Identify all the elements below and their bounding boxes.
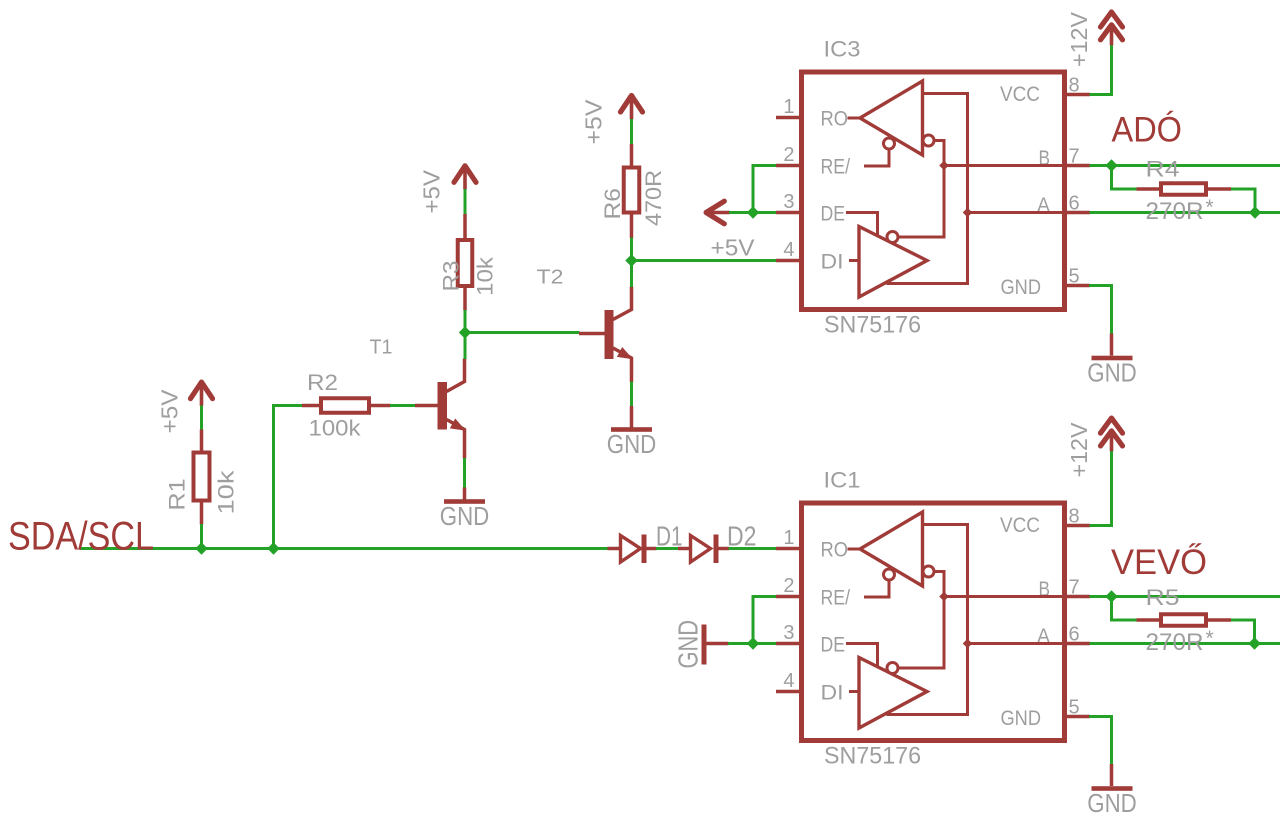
driver buffer triangle (inside IC1) bbox=[849, 658, 927, 729]
wire IC3 pin B net bbox=[1090, 164, 1280, 167]
svg-text:+5V: +5V bbox=[711, 235, 756, 261]
wire junction down to T1 collector bbox=[464, 333, 467, 360]
svg-text:VCC: VCC bbox=[1000, 82, 1040, 106]
svg-text:IC1: IC1 bbox=[824, 468, 861, 493]
svg-text:*: * bbox=[1206, 627, 1214, 650]
transistor T2 (NPN) bbox=[537, 267, 634, 383]
svg-text:1: 1 bbox=[783, 527, 794, 549]
IC IC3 body box bbox=[802, 72, 1065, 310]
wire junction to IC3 pin DE bbox=[753, 211, 778, 214]
svg-text:+5V: +5V bbox=[157, 389, 183, 434]
svg-text:5: 5 bbox=[1069, 266, 1080, 288]
resistor R1 10k bbox=[165, 430, 239, 525]
net label ADÓ bbox=[1112, 111, 1183, 150]
svg-text:ADÓ: ADÓ bbox=[1112, 111, 1183, 150]
svg-text:R4: R4 bbox=[1146, 157, 1180, 182]
node junction R3/T1/T2 bbox=[459, 326, 471, 338]
pin 7 (B) bbox=[1039, 146, 1091, 171]
wire junction up to IC1 pin RE/ bbox=[753, 597, 778, 644]
svg-text:270R: 270R bbox=[1146, 629, 1204, 656]
svg-text:VEVŐ: VEVŐ bbox=[1111, 543, 1207, 582]
receiver buffer triangle (inside IC3) bbox=[848, 81, 923, 155]
svg-text:GND: GND bbox=[1001, 275, 1042, 299]
wire ground to junction bbox=[728, 642, 753, 645]
svg-text:R6: R6 bbox=[600, 188, 625, 220]
resistor R3 10k bbox=[439, 214, 498, 311]
svg-text:+5V: +5V bbox=[419, 169, 445, 213]
svg-text:R3: R3 bbox=[439, 261, 464, 292]
wire SDA/SCL to D1 bbox=[607, 547, 608, 550]
svg-text:VCC: VCC bbox=[1000, 513, 1040, 537]
svg-text:IC3: IC3 bbox=[824, 37, 861, 62]
pin 2 (RE/) bbox=[776, 144, 850, 178]
pin 3 (DE) bbox=[776, 622, 845, 656]
net label VEVŐ bbox=[1111, 543, 1207, 582]
wire B down to R5 bbox=[1112, 597, 1138, 621]
svg-text:DI: DI bbox=[821, 249, 844, 273]
wire junction up to IC3 pin RE/ bbox=[753, 166, 778, 213]
svg-text:5: 5 bbox=[1069, 697, 1080, 719]
wire IC1 VCC to +12V bbox=[1090, 451, 1112, 526]
supply +5V arrow above R6 bbox=[581, 96, 643, 145]
wire IC3 VCC to +12V bbox=[1090, 45, 1112, 95]
svg-text:8: 8 bbox=[1069, 506, 1080, 528]
svg-text:8: 8 bbox=[1069, 75, 1080, 97]
receiver enable bubble (RE/) bbox=[864, 138, 895, 166]
wire junction to IC3 pin DI, net +5V bbox=[632, 235, 778, 261]
resistor R6 470R bbox=[600, 144, 666, 238]
node junction RE//DE (IC1) bbox=[747, 637, 759, 649]
wire SDA/SCL up to R2 bbox=[274, 406, 303, 549]
pin 2 (RE/) bbox=[776, 575, 850, 609]
diode D2 bbox=[678, 521, 757, 564]
IC value SN75176 label bbox=[824, 743, 921, 770]
svg-text:RO: RO bbox=[821, 537, 849, 561]
wire +5V to R1 bbox=[200, 406, 203, 431]
IC value SN75176 label bbox=[824, 312, 921, 339]
svg-text:R1: R1 bbox=[165, 479, 190, 511]
svg-text:6: 6 bbox=[1069, 193, 1080, 215]
node junction RE//DE (IC3) bbox=[747, 206, 759, 218]
node junction SDA/SCL at R1 bbox=[195, 542, 207, 554]
node junction A at R4 bbox=[1249, 206, 1261, 218]
resistor R4 270R* bbox=[1137, 157, 1232, 226]
svg-text:*: * bbox=[1206, 196, 1214, 219]
pin 4 (DI) bbox=[776, 239, 844, 273]
svg-text:RO: RO bbox=[821, 106, 849, 130]
pin 6 (A) bbox=[1037, 193, 1090, 218]
ground GND below IC1 pin 5 bbox=[1087, 786, 1137, 818]
receiver inverting input bubble + wire to B bbox=[898, 135, 944, 237]
node junction B at R4 bbox=[1105, 159, 1117, 171]
wire IC3 GND pin to ground bbox=[1089, 286, 1112, 356]
internal junction A bbox=[963, 208, 973, 218]
driver buffer triangle (inside IC3) bbox=[849, 227, 927, 298]
svg-text:3: 3 bbox=[783, 191, 794, 213]
driver enable wire (DE) bbox=[846, 213, 878, 236]
driver inverting output bubble bbox=[887, 663, 898, 674]
pin 1 (RO) bbox=[776, 527, 848, 561]
svg-text:7: 7 bbox=[1069, 146, 1080, 168]
svg-text:GND: GND bbox=[1087, 360, 1137, 388]
supply +12V arrow (bottom) bbox=[1066, 418, 1123, 477]
wire IC3 pin A net bbox=[1090, 211, 1280, 214]
wire junction to T2 base bbox=[465, 331, 580, 334]
driver inverting output bubble bbox=[887, 232, 898, 243]
svg-text:SN75176: SN75176 bbox=[824, 743, 921, 770]
pin 5 (GND) bbox=[1001, 697, 1091, 731]
svg-text:10k: 10k bbox=[473, 256, 498, 296]
wire +5V to R6 bbox=[630, 119, 633, 145]
node junction A at R5 bbox=[1248, 637, 1260, 649]
diode D1 bbox=[608, 521, 683, 564]
internal junction B bbox=[939, 592, 949, 602]
wire R2 to T1 base bbox=[390, 404, 416, 407]
wire T1 emitter to GND bbox=[463, 458, 466, 500]
wire R4 to A line bbox=[1231, 189, 1256, 213]
svg-text:100k: 100k bbox=[309, 416, 362, 441]
receiver buffer triangle (inside IC1) bbox=[848, 512, 923, 586]
wire IC1 GND pin to ground bbox=[1089, 717, 1112, 787]
IC name IC1 label bbox=[824, 468, 861, 493]
svg-text:+12V: +12V bbox=[1066, 422, 1092, 477]
svg-text:1: 1 bbox=[783, 96, 794, 118]
wire IC1 pin B net bbox=[1090, 595, 1280, 598]
wire B down to R4 bbox=[1112, 166, 1138, 190]
wire R6 to junction bbox=[630, 238, 633, 261]
svg-text:RE/: RE/ bbox=[821, 154, 851, 178]
wire SDA/SCL horizontal bus bbox=[80, 547, 608, 550]
ground GND below T2 bbox=[607, 427, 657, 459]
svg-text:GND: GND bbox=[673, 620, 704, 669]
wire IC1 pin A net bbox=[1090, 642, 1280, 645]
wire T2 emitter to GND bbox=[630, 382, 633, 429]
ground GND below IC3 pin 5 bbox=[1087, 356, 1137, 388]
ground GND below T1 bbox=[440, 499, 490, 531]
wire R5 to A line bbox=[1231, 620, 1255, 644]
svg-text:3: 3 bbox=[783, 622, 794, 644]
svg-text:DE: DE bbox=[821, 632, 846, 656]
supply +12V arrow (top) bbox=[1066, 12, 1123, 67]
pin 1 (RO) bbox=[776, 96, 848, 130]
wire +5V arrow to junction bbox=[729, 211, 753, 214]
resistor R5 270R* bbox=[1137, 585, 1232, 656]
wire +5V to R3 bbox=[464, 189, 467, 215]
svg-text:T2: T2 bbox=[537, 267, 564, 289]
internal junction B bbox=[939, 161, 949, 171]
svg-text:7: 7 bbox=[1069, 577, 1080, 599]
wire D1 to D2 bbox=[656, 547, 679, 550]
driver enable wire (DE) bbox=[846, 644, 878, 667]
supply +5V arrow above R3 bbox=[419, 166, 477, 214]
resistor R2 100k bbox=[302, 370, 391, 441]
ground GND (rotated) at IC1 RE//DE bbox=[673, 620, 729, 669]
internal wire B to pin 7 bbox=[944, 164, 1064, 167]
supply +5V arrow (left-pointing, IC3 RE//DE) bbox=[706, 201, 730, 224]
wire junction to IC1 pin DE bbox=[753, 642, 778, 645]
internal wire B to pin 7 bbox=[944, 595, 1064, 598]
svg-text:GND: GND bbox=[1001, 706, 1042, 730]
IC name IC3 label bbox=[824, 37, 861, 62]
svg-text:4: 4 bbox=[783, 239, 794, 261]
wire R1 to SDA/SCL bbox=[200, 524, 203, 549]
pin 8 (VCC) bbox=[1000, 506, 1090, 538]
svg-text:2: 2 bbox=[783, 575, 794, 597]
svg-text:6: 6 bbox=[1069, 624, 1080, 646]
svg-text:GND: GND bbox=[607, 431, 657, 459]
receiver enable bubble (RE/) bbox=[864, 569, 895, 597]
svg-text:+12V: +12V bbox=[1066, 12, 1092, 67]
internal wire A to pin 6 bbox=[968, 211, 1065, 214]
svg-text:270R: 270R bbox=[1146, 198, 1204, 225]
svg-text:470R: 470R bbox=[641, 170, 666, 226]
transistor T1 (NPN) bbox=[370, 337, 467, 459]
svg-text:DI: DI bbox=[821, 680, 844, 704]
pin 7 (B) bbox=[1039, 577, 1091, 602]
pin 4 (DI) bbox=[776, 670, 844, 704]
net label SDA/SCL bbox=[8, 515, 154, 559]
node junction SDA/SCL at R2 branch bbox=[267, 542, 279, 554]
svg-text:GND: GND bbox=[1087, 790, 1137, 818]
svg-text:RE/: RE/ bbox=[821, 585, 851, 609]
node junction R6/T2/DI bbox=[625, 254, 637, 266]
pin 6 (A) bbox=[1037, 624, 1090, 649]
node junction B at R5 bbox=[1105, 590, 1117, 602]
svg-text:2: 2 bbox=[783, 144, 794, 166]
IC IC1 body box bbox=[802, 503, 1065, 741]
svg-text:10k: 10k bbox=[214, 469, 239, 514]
svg-text:SN75176: SN75176 bbox=[824, 312, 921, 339]
svg-text:+5V: +5V bbox=[581, 99, 607, 145]
receiver inverting input bubble + wire to B bbox=[898, 566, 944, 668]
supply +5V arrow above R1 bbox=[157, 382, 213, 433]
pin 5 (GND) bbox=[1001, 266, 1091, 300]
internal wire A to pin 6 bbox=[968, 642, 1065, 645]
receiver A-input internal wire bbox=[887, 94, 968, 284]
wire D2 to IC1 pin RO bbox=[729, 547, 778, 550]
wire junction down to T2 collector bbox=[630, 261, 633, 288]
receiver A-input internal wire bbox=[887, 525, 968, 715]
svg-text:T1: T1 bbox=[370, 337, 393, 359]
svg-text:R5: R5 bbox=[1146, 585, 1180, 610]
internal junction A bbox=[963, 639, 973, 649]
svg-text:D2: D2 bbox=[727, 521, 757, 552]
wire R3 to junction bbox=[464, 310, 467, 333]
svg-text:DE: DE bbox=[821, 201, 846, 225]
svg-text:GND: GND bbox=[440, 503, 490, 531]
pin 8 (VCC) bbox=[1000, 75, 1090, 107]
pin 3 (DE) bbox=[776, 191, 845, 225]
svg-text:SDA/SCL: SDA/SCL bbox=[8, 515, 154, 559]
svg-text:R2: R2 bbox=[307, 370, 338, 395]
svg-text:4: 4 bbox=[783, 670, 794, 692]
